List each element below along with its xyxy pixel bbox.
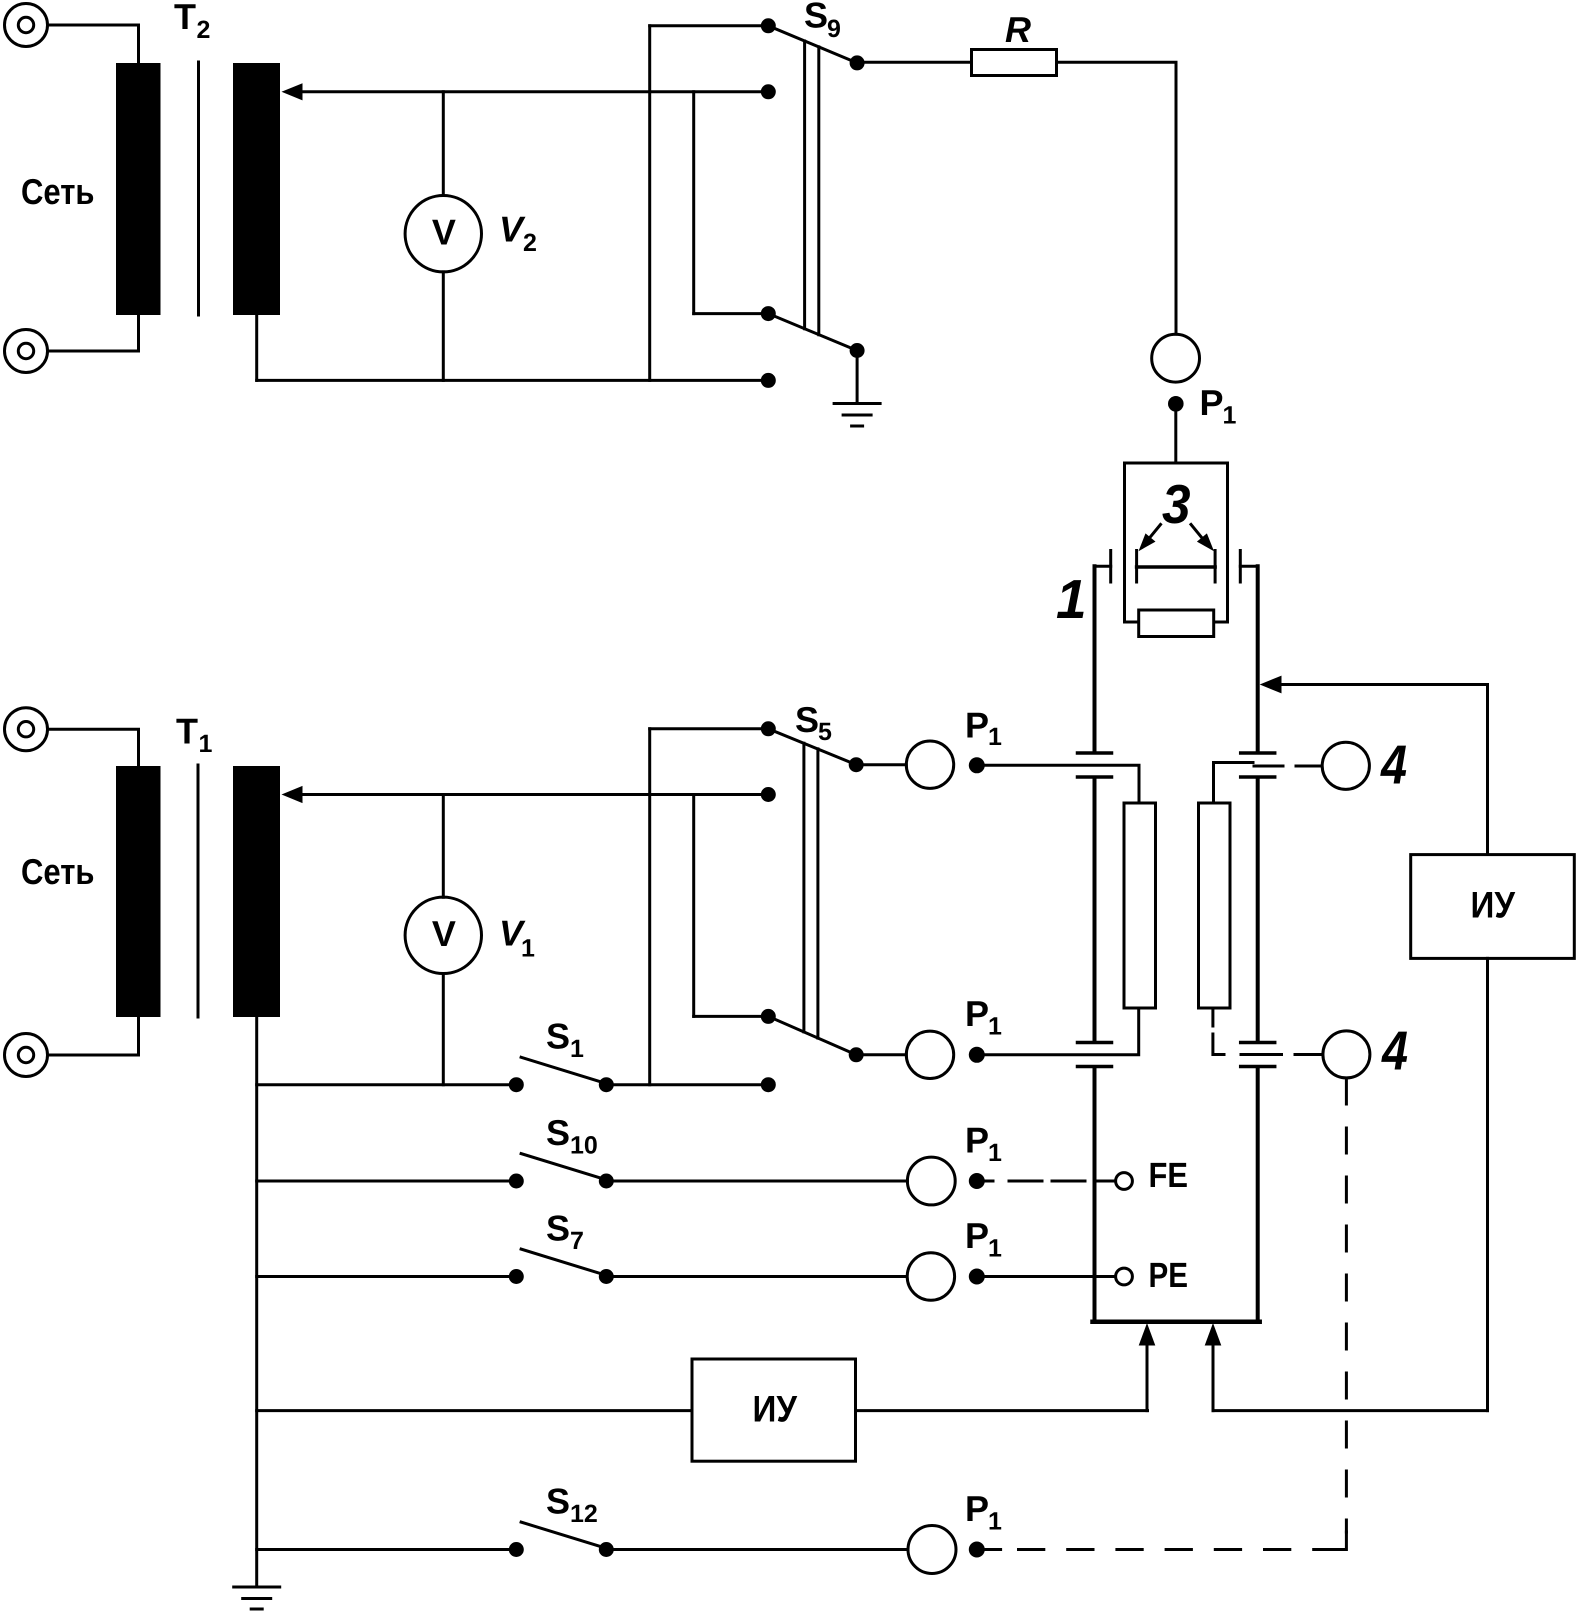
label P1 top [1200,382,1237,429]
wire IU right along bottom [1213,1409,1488,1412]
ground (top circuit) [834,404,880,427]
svg-text:S: S [546,1016,570,1057]
wire P1 lower probe to left element [977,1008,1139,1055]
switch S5 blade 1 [768,729,856,765]
wire S5 pole2 to probe [856,1053,906,1056]
voltmeter V1 [405,795,481,1085]
svg-text:1: 1 [988,1013,1002,1041]
svg-text:T: T [176,711,198,752]
probe P1 circle (S12) [908,1526,956,1574]
switch S12 blade [521,1522,604,1548]
transformer T2 secondary winding [233,63,280,315]
enclosure left wall middle [1093,779,1097,1041]
svg-text:9: 9 [827,15,841,43]
wire S9 cross rail 1 [648,26,651,381]
wire S5 top contact feed [650,727,769,730]
wire bottom rail of top circuit [257,379,769,382]
switch S12 left contact [509,1542,524,1557]
resistor R [972,50,1057,76]
switch S9 blade 1 [768,26,857,63]
svg-text:S: S [546,1481,570,1522]
switch S7 right contact [599,1269,614,1284]
svg-text:10: 10 [570,1132,598,1160]
switch S1 left contact [509,1077,524,1092]
svg-text:2: 2 [197,16,211,44]
svg-text:S: S [546,1208,570,1249]
svg-text:V: V [499,209,526,250]
transformer T2 primary winding [116,63,161,315]
transformer T1 secondary winding [233,766,280,1017]
node P1 (S7) [969,1269,985,1285]
wire terminal X4 to T1 primary bottom [48,1017,139,1055]
svg-text:S: S [795,699,819,740]
svg-text:1: 1 [1223,402,1237,430]
wire S1 row from rail [257,1083,517,1086]
switch S9 contact d [761,373,776,388]
svg-text:1: 1 [1056,568,1087,630]
wire IU left box to arrow [856,1409,1148,1412]
switch S9 mechanical link [805,41,819,335]
switch S9 contact a [761,18,776,33]
T1 tap arrow into secondary [282,786,769,803]
wire S10 to probe [606,1180,907,1183]
label S7 [546,1208,584,1256]
wire S1 to S5 bottom contact [606,1083,768,1086]
wire T2 secondary bottom down [255,315,258,380]
wire S9 pole2 to ground [856,351,859,403]
probe 4 upper (foil) circle [1322,742,1369,789]
wire terminal X3 to T1 primary top [48,729,139,766]
T2 tap arrow into secondary [282,83,769,100]
wire down to IU right box [1486,685,1489,855]
transformer T1 core [197,765,200,1017]
svg-text:S: S [546,1112,570,1153]
enclosure left wall upper [1093,566,1097,752]
wire S12 row from rail [257,1548,517,1551]
svg-text:1: 1 [988,1235,1002,1263]
switch S7 blade [521,1249,604,1275]
svg-text:ИУ: ИУ [1471,885,1516,926]
wire P1 node to plug shroud [1174,404,1177,463]
switch S5 blade 2 [768,1016,856,1054]
switch S5 contact a [761,721,776,736]
svg-text:S: S [804,0,828,36]
label T2 [174,0,210,44]
svg-text:1: 1 [570,1035,584,1063]
svg-text:P: P [1200,382,1224,423]
dashed wire along bottom to S12 probe node [977,1548,1001,1551]
left rail from T1 secondary to ground [255,1017,258,1586]
wire IU right box down [1486,958,1489,1410]
enclosure right wall middle [1256,779,1260,1041]
svg-text:2: 2 [523,229,537,257]
wire left rail to IU left box [257,1409,692,1412]
node P1 (S5 lower) [969,1047,985,1063]
appliance internal resistor (between pins) [1139,610,1214,637]
label V2 [499,209,537,258]
wire right element to foil (upper, jogged) [1214,763,1323,804]
voltmeter V2 [405,92,481,381]
wire terminal X1 to T2 primary top [48,25,139,63]
arrow 3 to right pin [1191,525,1214,552]
wire S5 cross rail 2 [692,795,695,1017]
wire S10 row from rail [257,1180,517,1183]
terminal X4 (mains input bottom) [5,1034,48,1077]
svg-text:FE: FE [1149,1156,1189,1195]
label S1 [546,1016,584,1063]
terminal X1 (mains input top) [5,4,48,47]
dashed wire probe 4 lower down [1345,1079,1348,1532]
node P1 (S12) [969,1542,985,1558]
probe P1 circle (S5 upper) [906,741,953,788]
enclosure right wall lower [1256,1069,1260,1323]
wire S9 third contact feed [694,312,769,315]
switch S5 contact b [761,787,776,802]
probe P1 top circle [1152,334,1200,382]
node P1 (S5 upper) [969,757,985,773]
enclosure left wall lower [1093,1069,1097,1323]
label S5 [795,699,832,746]
capacitor CL2 plates [1078,1043,1112,1067]
ground (bottom circuit) [234,1587,280,1609]
enclosure right wall upper [1256,566,1260,752]
svg-text:7: 7 [570,1227,584,1255]
transformer T2 core [197,62,200,315]
plug pin L [1135,551,1138,583]
IU box right (measuring unit) [1411,855,1575,959]
label P1 (S5 lower) [965,993,1002,1041]
switch S9 contact b [761,84,776,99]
svg-text:4: 4 [1380,734,1407,796]
heating element left [1124,803,1156,1008]
switch S5 contact c [761,1009,776,1024]
svg-text:3: 3 [1162,473,1191,535]
svg-text:1: 1 [199,730,213,758]
label S12 [546,1481,598,1529]
PE terminal [985,1268,1133,1285]
svg-text:12: 12 [570,1500,598,1528]
svg-text:P: P [965,1120,989,1161]
wire S9 top contact feed [650,24,769,27]
probe 4 lower (foil) circle [1323,1031,1370,1078]
pin shorting bar [1137,565,1216,569]
svg-text:P: P [965,1215,989,1256]
switch S5 pole 1 [849,757,864,772]
switch S10 left contact [509,1174,524,1189]
svg-text:T: T [174,0,196,37]
wire R to probe P1 top [1057,62,1177,334]
svg-text:Сеть: Сеть [21,851,95,892]
wire P1 upper probe to left element [977,765,1139,803]
capacitor CL1 plates [1078,753,1112,777]
plug pin N [1214,551,1217,583]
label P1 (S10) [965,1120,1002,1168]
switch S9 pole 2 [850,343,865,358]
svg-text:1: 1 [988,723,1002,751]
wire right element to foil (lower, dashed) [1213,1008,1323,1055]
enclosure bottom [1093,1320,1260,1325]
svg-text:1: 1 [988,1139,1002,1167]
wire S5 third contact feed [694,1015,769,1018]
wire S5 cross rail 1 [648,729,651,1085]
switch S10 blade [521,1154,604,1180]
capacitor CR2 plates [1241,1043,1275,1067]
wire socket right to enclosure wall [1240,565,1257,568]
label P1 (S5 upper) [965,705,1002,752]
switch S9 contact c [761,306,776,321]
svg-text:Сеть: Сеть [21,171,95,212]
switch S10 right contact [599,1174,614,1189]
capacitor CR1 plates [1241,753,1275,777]
label S10 [546,1112,598,1160]
label P1 (S12) [965,1488,1002,1536]
svg-text:P: P [965,993,989,1034]
switch S1 blade [521,1057,604,1083]
socket contact right [1239,551,1242,583]
arrow from IU right into enclosure wall [1260,676,1488,694]
switch S12 right contact [599,1542,614,1557]
wire S5 pole1 to probe [856,763,906,766]
node P1 (S10) [969,1173,985,1189]
svg-text:V: V [432,913,456,954]
FE terminal [985,1173,1132,1190]
terminal X3 (mains input top) [5,708,48,751]
svg-text:PE: PE [1149,1256,1189,1295]
transformer T1 primary winding [116,766,161,1017]
svg-text:V: V [432,212,456,253]
arrow into enclosure bottom right [1205,1323,1222,1411]
switch S9 blade 2 [768,314,857,351]
label S9 [804,0,841,43]
wire terminal X2 to T2 primary bottom [48,315,139,351]
wire socket left to enclosure wall [1095,565,1111,568]
switch S5 pole 2 [849,1047,864,1062]
arrow into enclosure bottom left [1139,1323,1156,1411]
node P1 top [1168,396,1184,412]
switch S5 mechanical link [804,743,818,1038]
probe P1 circle (S5 lower) [906,1031,953,1078]
svg-text:P: P [965,1488,989,1529]
socket contact left [1109,551,1112,583]
svg-text:ИУ: ИУ [753,1389,798,1430]
svg-text:1: 1 [521,935,535,963]
dashed corner at S12 row [1340,1532,1346,1550]
svg-text:P: P [965,705,989,746]
svg-text:4: 4 [1381,1020,1408,1082]
label P1 (S7) [965,1215,1002,1263]
svg-text:5: 5 [818,718,832,746]
IU box left (measuring unit) [692,1359,856,1461]
switch S7 left contact [509,1269,524,1284]
wire S9 cross rail 2 [692,92,695,314]
probe P1 circle (S7) [907,1253,954,1300]
switch S9 pole 1 [850,55,865,70]
probe P1 circle (S10) [907,1157,955,1205]
wire S7 to probe [606,1275,907,1278]
switch S5 contact d [761,1077,776,1092]
svg-text:R: R [1005,9,1031,50]
label V1 [499,913,535,963]
plug shroud box (2) [1125,463,1228,622]
svg-text:1: 1 [988,1508,1002,1536]
label T1 [176,711,213,759]
switch S1 right contact [599,1077,614,1092]
wire S12 to probe [606,1548,908,1551]
arrow 3 to left pin [1139,525,1161,552]
terminal X2 (mains input bottom) [5,330,48,373]
wire S7 row from rail [257,1275,517,1278]
heating element right [1199,803,1231,1008]
wire S9 pole1 to resistor R [857,61,971,64]
